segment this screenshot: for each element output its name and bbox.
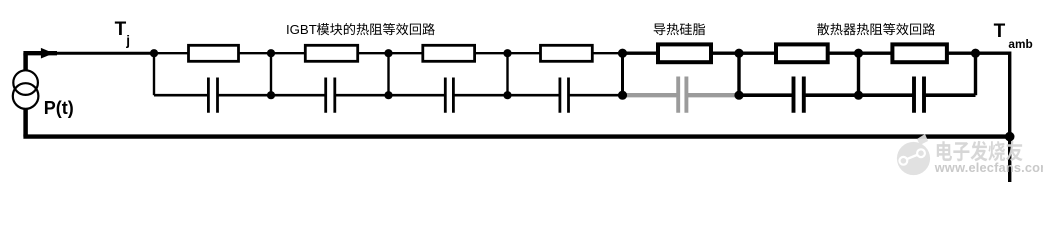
wire: bottom return rail bbox=[23, 134, 1009, 138]
watermark logo disc bbox=[897, 134, 930, 175]
wire: vertical at node 7 bbox=[974, 53, 977, 95]
node 4 top junction bbox=[618, 49, 627, 58]
capacitor C2 bbox=[326, 78, 335, 113]
wire: capacitor rail section 5 bbox=[623, 93, 679, 97]
node 1 top junction bbox=[267, 49, 275, 57]
wire: top-left corner + source stubs bbox=[23, 53, 28, 71]
svg-text:T: T bbox=[115, 19, 127, 40]
resistor R7 bbox=[892, 44, 947, 62]
wire: capacitor rail section 7 bbox=[859, 93, 914, 97]
label: thermal grease bbox=[654, 23, 705, 35]
node 2 top junction bbox=[384, 49, 392, 57]
wire: capacitor rail section 1 bbox=[154, 94, 208, 97]
node 4 bottom junction bbox=[618, 91, 627, 100]
capacitor C5 thermal-grease bbox=[678, 77, 686, 113]
capacitor C7 bbox=[914, 77, 924, 113]
wire: capacitor rail section 3 bbox=[389, 94, 446, 97]
wire: top rail arrow to node Tj bbox=[50, 52, 154, 55]
svg-text:T: T bbox=[994, 21, 1006, 42]
wire: vertical at node 5 bbox=[737, 53, 740, 95]
label: heatsink thermal network bbox=[817, 23, 935, 35]
resistor R6 bbox=[776, 44, 828, 62]
wire: vertical at node 3 bbox=[506, 53, 508, 95]
node 3 top junction bbox=[503, 49, 511, 57]
svg-text:j: j bbox=[125, 33, 130, 48]
bottom-rail right junction bbox=[1005, 132, 1015, 142]
svg-text:www.elecfans.com: www.elecfans.com bbox=[934, 160, 1043, 175]
resistor R4 bbox=[541, 45, 593, 61]
node 2 bottom junction bbox=[384, 91, 392, 99]
svg-text:P(t): P(t) bbox=[44, 98, 74, 118]
wire: vertical at node 0 bbox=[153, 53, 155, 95]
wire: vertical at node 2 bbox=[387, 53, 389, 95]
wire: source bottom leg bbox=[23, 108, 28, 136]
node 5 top junction bbox=[734, 49, 743, 58]
wire: capacitor rail section 4 bbox=[508, 94, 560, 97]
node 6 bottom junction bbox=[854, 91, 863, 100]
wire: capacitor rail section 2 bbox=[271, 94, 326, 97]
resistor R5 thermal-grease bbox=[658, 44, 711, 62]
node Tamb-side top junction bbox=[971, 49, 980, 58]
resistor R3 bbox=[423, 45, 475, 61]
wire: vertical at node 6 bbox=[857, 53, 860, 95]
svg-text:IGBT: IGBT bbox=[286, 22, 317, 37]
node 6 top junction bbox=[854, 49, 863, 58]
resistor R2 bbox=[305, 45, 357, 61]
watermark text dianzifashaoyou bbox=[937, 141, 1023, 161]
resistor R1 bbox=[189, 45, 239, 61]
wire: vertical at node 4 bbox=[621, 53, 624, 95]
wire: arrow on top rail bbox=[41, 48, 54, 59]
wire: vertical at node 1 bbox=[270, 53, 272, 95]
node 1 bottom junction bbox=[267, 91, 275, 99]
capacitor C4 bbox=[560, 78, 569, 113]
node 3 bottom junction bbox=[503, 91, 511, 99]
svg-text:amb: amb bbox=[1008, 37, 1032, 51]
current source P(t) bbox=[13, 70, 38, 95]
wire: capacitor rail section 6 bbox=[739, 93, 793, 97]
capacitor C1 bbox=[208, 78, 217, 113]
wire: top rail grease+heatsink section bbox=[623, 52, 976, 55]
node 5 bottom junction bbox=[734, 91, 743, 100]
wire: top-right corner to Tamb, right vertical bbox=[976, 53, 1010, 182]
capacitor C6 bbox=[794, 77, 804, 113]
node Tj junction bbox=[150, 49, 158, 57]
capacitor C3 bbox=[445, 78, 453, 113]
wire: top rail IGBT section bbox=[154, 52, 623, 54]
